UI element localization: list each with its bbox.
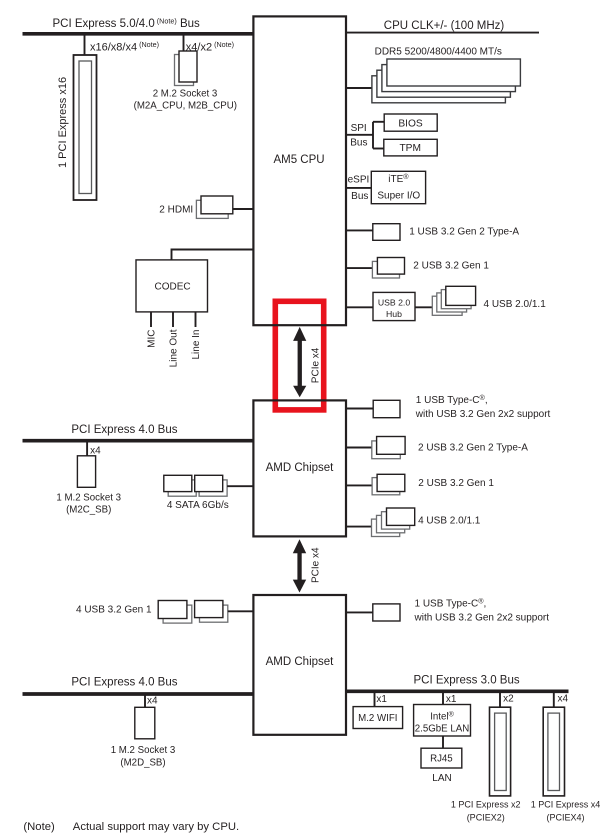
svg-text:x2: x2: [503, 693, 514, 704]
component: M.2 WIFI: [353, 707, 403, 729]
wire: CPU CLK line: [346, 32, 540, 34]
svg-text:4 USB 2.0/1.1: 4 USB 2.0/1.1: [484, 299, 547, 310]
wire: chipset1 to 4 USB 2.0/1.1: [346, 526, 372, 528]
svg-text:Actual support may vary by CPU: Actual support may vary by CPU.: [73, 821, 239, 833]
component: 4 USB 2.0/1.1 stack (chipset1): [372, 508, 415, 537]
svg-text:BIOS: BIOS: [398, 119, 423, 130]
wire: to TPM: [373, 148, 384, 150]
svg-text:1 M.2 Socket 3: 1 M.2 Socket 3: [111, 745, 176, 756]
svg-text:1 PCI Express x2: 1 PCI Express x2: [451, 799, 521, 809]
svg-text:CPU CLK+/- (100 MHz): CPU CLK+/- (100 MHz): [384, 20, 505, 32]
highlight: red box around PCIe x4 link: [275, 301, 323, 410]
svg-text:x4: x4: [558, 693, 569, 704]
svg-text:1 USB Type-C®,: 1 USB Type-C®,: [415, 596, 487, 609]
component: 2 USB 3.2 Gen 2 Type-A (front): [377, 437, 406, 455]
wire: drop to M.2 WIFI: [374, 691, 376, 706]
slot: PCIEX2 (inner): [495, 713, 507, 790]
wire: chipset1 to USB Type-C: [346, 408, 374, 410]
svg-text:with USB 3.2 Gen 2x2 support: with USB 3.2 Gen 2x2 support: [415, 409, 551, 420]
svg-text:x1: x1: [376, 694, 387, 705]
wire: to chipset2: [228, 610, 254, 612]
wire: HDMI to CPU: [233, 208, 254, 210]
wire: to BIOS: [373, 121, 384, 123]
component: 2 USB 3.2 Gen 1 ports (shadow): [372, 261, 399, 278]
component: M.2 Socket M2C: [77, 456, 95, 488]
svg-text:USB 2.0: USB 2.0: [378, 297, 411, 307]
svg-text:1 USB 3.2 Gen 2 Type-A: 1 USB 3.2 Gen 2 Type-A: [409, 227, 519, 238]
arrow: CPU to chipset PCIe x4: [293, 327, 306, 397]
svg-text:1 PCI Express x16: 1 PCI Express x16: [57, 77, 69, 168]
wire: drop to PCIEX2: [499, 691, 501, 707]
component: 2 USB 3.2 Gen 2 Type-A (shadow): [372, 441, 401, 459]
svg-text:MIC: MIC: [147, 330, 158, 348]
component: 2 USB 3.2 Gen 1 (shadow): [372, 478, 400, 495]
wire: PCI Express 4.0 bus (thick, upper): [23, 439, 254, 443]
svg-text:1 M.2 Socket 3: 1 M.2 Socket 3: [56, 492, 121, 503]
component: Intel 2.5GbE LAN: [414, 705, 471, 737]
slot: PCIEX4 (outer): [543, 707, 564, 796]
svg-text:2.5GbE LAN: 2.5GbE LAN: [415, 724, 469, 735]
component: 4 SATA ports (shadows): [168, 480, 196, 496]
chipset block 1: AMD Chipset: [253, 400, 346, 536]
svg-text:eSPI: eSPI: [348, 175, 370, 186]
wire: drop from bus to PCIe x16 slot: [84, 34, 86, 55]
svg-text:CODEC: CODEC: [155, 281, 191, 292]
wire: eSPI bus from CPU: [346, 187, 372, 189]
wire: drop from bus to M.2 CPU sockets: [183, 34, 185, 52]
component: 2 M.2 Socket 3 (shadow): [175, 55, 194, 86]
svg-text:AM5 CPU: AM5 CPU: [273, 154, 324, 166]
svg-text:Bus: Bus: [351, 191, 368, 202]
slot: 1 PCI Express x16 (outer): [74, 55, 97, 200]
wire: hub to 4 USB 2.0/1.1: [415, 306, 432, 308]
component: 2 M.2 Socket 3 (front): [179, 51, 197, 82]
svg-text:Super I/O: Super I/O: [377, 190, 420, 201]
svg-text:Bus: Bus: [350, 138, 367, 149]
component: 1 USB 3.2 Gen 2 Type-A port: [373, 224, 400, 241]
component: 2 USB 3.2 Gen 1 (front): [377, 474, 405, 491]
svg-text:with USB 3.2 Gen 2x2 support: with USB 3.2 Gen 2x2 support: [414, 613, 550, 624]
component: 2 USB 3.2 Gen 1 ports (front): [377, 258, 404, 275]
slot: PCIEX2 (outer): [490, 707, 511, 796]
component: BIOS: [384, 114, 437, 131]
svg-text:RJ45: RJ45: [430, 754, 453, 765]
svg-text:2 HDMI: 2 HDMI: [159, 204, 193, 215]
slot: PCIEX4 (inner): [548, 713, 560, 790]
svg-text:1 USB Type-C®,: 1 USB Type-C®,: [416, 393, 488, 406]
component: 4 SATA ports (front): [164, 475, 192, 491]
arrow: chipset1 to chipset2 PCIe x4: [293, 539, 306, 592]
component: RJ45: [421, 748, 462, 768]
svg-text:DDR5 5200/4800/4400 MT/s: DDR5 5200/4800/4400 MT/s: [375, 47, 502, 58]
wire: PCI Express 3.0 bus (thick): [346, 689, 569, 693]
svg-text:Hub: Hub: [386, 309, 402, 319]
svg-text:AMD Chipset: AMD Chipset: [266, 656, 335, 668]
svg-text:AMD Chipset: AMD Chipset: [266, 462, 335, 474]
wire: chipset1 to 2 USB 3.2 Gen 1: [346, 484, 373, 486]
wire: drop to Intel LAN: [442, 691, 444, 704]
svg-text:2 USB 3.2 Gen 1: 2 USB 3.2 Gen 1: [413, 261, 489, 272]
svg-text:(M2C_SB): (M2C_SB): [66, 504, 111, 515]
wire: PCI Express 5.0/4.0 bus (thick): [23, 32, 254, 36]
svg-text:PCI Express 4.0 Bus: PCI Express 4.0 Bus: [71, 424, 177, 436]
wire: SPI bus from CPU: [346, 134, 374, 136]
svg-text:TPM: TPM: [399, 143, 421, 154]
component: USB Type-C port (chipset1): [373, 400, 400, 417]
svg-text:PCI Express 3.0 Bus: PCI Express 3.0 Bus: [414, 675, 520, 687]
component: USB 2.0 Hub: [373, 292, 415, 320]
svg-text:SPI: SPI: [351, 123, 367, 134]
component: M.2 Socket M2D: [135, 707, 155, 739]
wire: chipset1 to 2 USB 3.2 Gen 2 Type-A: [346, 447, 372, 449]
wire: LAN to RJ45: [442, 736, 444, 748]
svg-text:(M2A_CPU, M2B_CPU): (M2A_CPU, M2B_CPU): [134, 101, 237, 112]
wire: CPU to CODEC: [172, 250, 254, 261]
svg-text:x1: x1: [446, 694, 457, 705]
svg-text:4 USB 3.2 Gen 1: 4 USB 3.2 Gen 1: [76, 604, 152, 615]
svg-text:x4: x4: [147, 696, 158, 707]
component: 4 USB 2.0/1.1 ports stack: [432, 286, 475, 315]
svg-text:2 USB 3.2 Gen 1: 2 USB 3.2 Gen 1: [418, 478, 494, 489]
CPU block: AM5 CPU: [253, 16, 346, 325]
wire: drop to PCIEX4: [553, 691, 555, 707]
svg-text:2 USB 3.2 Gen 2 Type-A: 2 USB 3.2 Gen 2 Type-A: [418, 442, 528, 453]
wire: drop to M.2 socket M2D: [144, 694, 146, 707]
svg-text:PCI Express 5.0/4.0 (Note) Bus: PCI Express 5.0/4.0 (Note) Bus: [53, 16, 201, 30]
component: TPM: [384, 139, 437, 156]
svg-text:4 USB 2.0/1.1: 4 USB 2.0/1.1: [418, 516, 481, 527]
component: 4 USB 3.2 Gen 1 ports (shadows): [163, 605, 192, 623]
svg-text:(PCIEX2): (PCIEX2): [467, 812, 505, 822]
component: DDR5 DIMM stack: [372, 59, 521, 103]
wire: PCI Express 4.0 bus (thick, lower): [23, 692, 254, 696]
wire: CPU to USB 2.0 hub: [346, 306, 374, 308]
wire: Line In stub: [195, 312, 197, 327]
svg-text:M.2 WIFI: M.2 WIFI: [358, 713, 397, 724]
svg-text:1 PCI Express x4: 1 PCI Express x4: [531, 799, 601, 809]
wire: chipset2 to USB Type-C: [346, 611, 373, 613]
component: USB Type-C port (chipset2): [373, 604, 400, 621]
slot: 1 PCI Express x16 (inner): [79, 61, 92, 194]
svg-text:Line Out: Line Out: [169, 329, 180, 367]
component: iTE Super I/O: [371, 171, 425, 203]
svg-text:4 SATA 6Gb/s: 4 SATA 6Gb/s: [167, 500, 229, 511]
svg-text:PCI Express 4.0 Bus: PCI Express 4.0 Bus: [71, 676, 177, 688]
component: 4 USB 3.2 Gen 1 ports (front): [158, 601, 187, 619]
component: 2 HDMI (shadow): [196, 200, 228, 218]
wire: CPU to DDR5: [346, 87, 373, 89]
svg-text:(M2D_SB): (M2D_SB): [120, 757, 165, 768]
svg-text:(Note): (Note): [23, 821, 55, 833]
svg-text:PCIe x4: PCIe x4: [310, 547, 321, 583]
svg-text:2 M.2 Socket 3: 2 M.2 Socket 3: [153, 89, 218, 100]
wire: CPU to 1 USB 3.2 Gen 2 Type-A: [346, 229, 373, 231]
wire: SPI junction vertical: [372, 122, 374, 149]
svg-text:PCIe x4: PCIe x4: [311, 347, 322, 383]
wire: Line Out stub: [172, 312, 174, 327]
svg-text:Line In: Line In: [191, 330, 202, 360]
svg-text:(PCIEX4): (PCIEX4): [546, 812, 584, 822]
svg-text:LAN: LAN: [432, 773, 451, 784]
component: CODEC: [136, 260, 208, 312]
svg-text:x4: x4: [90, 446, 101, 457]
wire: MIC stub: [150, 312, 152, 327]
wire: SATA to chipset: [227, 485, 253, 487]
chipset block 2: AMD Chipset: [253, 595, 346, 735]
wire: CPU to 2 USB 3.2 Gen 1: [346, 267, 373, 269]
component: 2 HDMI (front): [201, 196, 233, 214]
wire: drop to M.2 socket M2C: [86, 441, 88, 456]
